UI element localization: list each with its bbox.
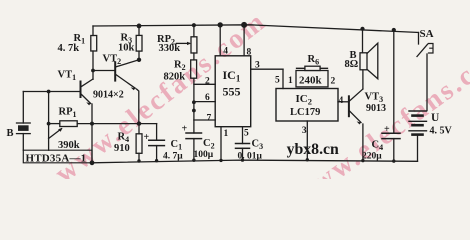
svg-text:555: 555 bbox=[223, 85, 241, 99]
svg-text:ybx8.cn: ybx8.cn bbox=[287, 141, 339, 158]
svg-text:390k: 390k bbox=[58, 140, 80, 151]
svg-text:1: 1 bbox=[224, 129, 229, 139]
svg-text:910: 910 bbox=[114, 143, 130, 154]
svg-text:6: 6 bbox=[205, 93, 210, 103]
svg-text:240k: 240k bbox=[299, 75, 323, 87]
svg-text:4. 5V: 4. 5V bbox=[430, 126, 453, 137]
svg-text:220μ: 220μ bbox=[362, 152, 382, 162]
svg-text:100μ: 100μ bbox=[194, 150, 214, 160]
svg-text:HTD35A—1: HTD35A—1 bbox=[26, 153, 87, 165]
svg-text:8: 8 bbox=[247, 48, 252, 58]
svg-text:10k: 10k bbox=[118, 43, 135, 54]
svg-text:+: + bbox=[384, 124, 390, 135]
svg-text:8Ω: 8Ω bbox=[345, 59, 359, 70]
svg-text:1: 1 bbox=[288, 76, 293, 86]
svg-text:U: U bbox=[431, 112, 440, 124]
svg-text:7: 7 bbox=[207, 114, 212, 124]
svg-text:LC179: LC179 bbox=[290, 107, 320, 118]
svg-text:4. 7μ: 4. 7μ bbox=[163, 152, 183, 162]
svg-text:9014×2: 9014×2 bbox=[93, 90, 124, 101]
svg-text:4. 7k: 4. 7k bbox=[58, 43, 80, 54]
svg-text:9013: 9013 bbox=[366, 103, 386, 114]
svg-text:5: 5 bbox=[275, 76, 280, 86]
svg-text:+: + bbox=[144, 132, 150, 143]
svg-text:4: 4 bbox=[339, 96, 344, 106]
svg-text:2: 2 bbox=[331, 77, 336, 87]
svg-text:3: 3 bbox=[302, 126, 307, 136]
svg-text:SA: SA bbox=[420, 28, 434, 40]
svg-text:4: 4 bbox=[223, 47, 228, 57]
svg-text:820k: 820k bbox=[164, 72, 186, 83]
svg-text:+: + bbox=[182, 124, 188, 135]
svg-text:2: 2 bbox=[205, 77, 210, 87]
svg-text:0. 01μ: 0. 01μ bbox=[238, 152, 263, 162]
svg-text:3: 3 bbox=[255, 61, 260, 71]
svg-text:330k: 330k bbox=[159, 43, 181, 54]
svg-text:5: 5 bbox=[244, 129, 249, 139]
svg-text:B: B bbox=[7, 128, 14, 139]
